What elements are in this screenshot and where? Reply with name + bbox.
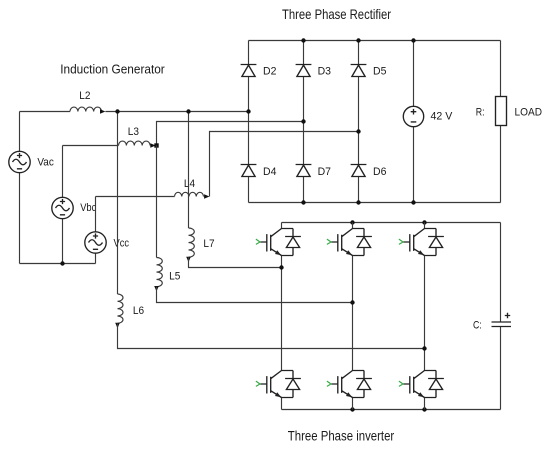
- svg-text:Three Phase inverter: Three Phase inverter: [288, 427, 395, 443]
- svg-text:L4: L4: [184, 178, 195, 190]
- svg-text:Vbc: Vbc: [80, 202, 97, 214]
- wire inverter leg 3: [424, 223, 426, 410]
- IGBT Q5: [327, 371, 372, 398]
- svg-text:D7: D7: [318, 166, 331, 178]
- wire L7 output to inverter leg 1: [189, 257, 282, 267]
- svg-text:L6: L6: [133, 305, 144, 317]
- wire L3 output down to L5: [156, 146, 158, 258]
- junction dot phase A to L7: [186, 109, 190, 113]
- svg-text:Vcc: Vcc: [114, 237, 130, 249]
- arrow L5: [154, 286, 159, 291]
- IGBT Q3: [399, 229, 444, 256]
- svg-text:D4: D4: [263, 166, 276, 178]
- diode D6: [351, 165, 367, 177]
- diode D5: [351, 65, 367, 77]
- inverter bottom bus: [282, 409, 501, 411]
- junction dot 42V bottom bus: [411, 200, 415, 204]
- svg-text:Induction Generator: Induction Generator: [60, 62, 165, 77]
- wire Vac branch vertical: [19, 112, 21, 264]
- svg-text:Three Phase Rectifier: Three Phase Rectifier: [282, 6, 391, 22]
- junction dot D5 top bus: [356, 38, 360, 42]
- junction dot Vbc bottom: [60, 261, 64, 265]
- svg-text:L2: L2: [79, 90, 90, 102]
- diode D2: [241, 65, 257, 77]
- svg-text:D6: D6: [373, 166, 386, 178]
- diode D7: [296, 165, 312, 177]
- junction dot D3 input: [301, 119, 305, 123]
- inductor L2: [70, 107, 102, 111]
- junction dot 42V top bus: [411, 38, 415, 42]
- wire diode column D2/D4: [248, 41, 250, 203]
- wire Vcc branch and L4 input: [96, 197, 175, 264]
- wire inverter leg 1: [281, 223, 283, 410]
- svg-text:L5: L5: [169, 271, 180, 283]
- rectifier top bus: [249, 40, 501, 42]
- svg-text:D2: D2: [263, 66, 276, 78]
- arrow L3: [150, 143, 155, 148]
- svg-text:D5: D5: [373, 66, 386, 78]
- wire generator bottom return: [20, 263, 96, 265]
- inverter top bus: [282, 222, 501, 224]
- junction dot top bus leg 2: [350, 220, 354, 224]
- diode D4: [241, 165, 257, 177]
- wire phase A drop to L6: [117, 112, 119, 295]
- svg-text:D3: D3: [318, 66, 331, 78]
- arrow L2: [100, 109, 105, 114]
- AC source Vcc: [85, 232, 106, 253]
- svg-text:L3: L3: [128, 126, 139, 138]
- wire L3 output up to D3 input: [157, 122, 304, 146]
- capacitor plus sign: [505, 313, 510, 318]
- capacitor C plates: [492, 322, 512, 327]
- arrow L6: [115, 323, 120, 328]
- IGBT Q2: [327, 229, 372, 256]
- arrow L4: [204, 194, 209, 199]
- wire load branch: [500, 41, 502, 203]
- wire L6 output to inverter leg 3: [118, 323, 425, 348]
- wire capacitor branch: [500, 223, 502, 410]
- rectifier bottom bus: [249, 202, 501, 204]
- junction dot phase 3 node: [422, 346, 426, 350]
- junction dot phase 1 node: [279, 265, 283, 269]
- junction dot top bus leg 3: [422, 220, 426, 224]
- IGBT Q4: [256, 371, 301, 398]
- AC source Vbc: [52, 197, 73, 218]
- AC source Vac: [9, 151, 30, 172]
- wire Vbc branch and L3 input: [63, 146, 119, 264]
- junction dot D5 input: [356, 129, 360, 133]
- arrow L7: [186, 257, 191, 262]
- inductor L7: [189, 228, 195, 257]
- inductor L5: [157, 258, 163, 287]
- junction dot phase 2 node: [350, 300, 354, 304]
- junction dot D6 bottom bus: [356, 200, 360, 204]
- svg-text:LOAD: LOAD: [515, 107, 543, 119]
- inductor L6: [118, 294, 123, 323]
- svg-text:L7: L7: [203, 238, 214, 250]
- wire L5 output to inverter leg 2: [157, 287, 353, 303]
- junction square L3 output node: [154, 143, 158, 147]
- resistor R: [496, 97, 507, 126]
- diode D3: [296, 65, 312, 77]
- svg-text:C:: C:: [473, 319, 482, 331]
- inductor L4: [175, 192, 204, 196]
- inductor L3: [119, 141, 151, 145]
- wire inverter leg 2: [352, 223, 354, 410]
- wire diode column D5/D6: [358, 41, 360, 203]
- junction dot D7 bottom bus: [301, 200, 305, 204]
- DC source 42V: [403, 106, 423, 126]
- IGBT Q6: [399, 371, 444, 398]
- wire L4 output up to D5 input: [210, 132, 359, 197]
- svg-text:R:: R:: [476, 107, 485, 119]
- wire diode column D3/D7: [303, 41, 305, 203]
- junction dot D2 input: [246, 109, 250, 113]
- svg-text:Vac: Vac: [37, 157, 54, 169]
- wire phase A drop to L7: [188, 112, 190, 229]
- wire phase A: Vac top to D2 column: [20, 111, 249, 113]
- svg-text:42 V: 42 V: [431, 110, 453, 122]
- junction dot D3 top bus: [301, 38, 305, 42]
- junction dot phase A to L6: [115, 109, 119, 113]
- IGBT Q1: [256, 229, 301, 256]
- junction dot bottom bus leg 2: [350, 407, 354, 411]
- wire 42V branch: [413, 41, 415, 203]
- junction dot bottom bus leg 3: [422, 407, 426, 411]
